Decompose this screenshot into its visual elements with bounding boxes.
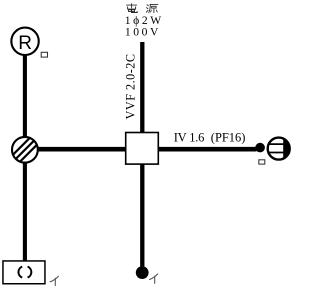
wire: lamp receptacle to joint box (left vertical upper) — [23, 54, 27, 138]
svg-text:(PF16): (PF16) — [211, 130, 246, 144]
VVF joint box (hatched circle) — [9, 127, 41, 173]
switch ロ (filled dot) — [255, 143, 265, 153]
power source label 源 (kanji GEN, hand-drawn) — [146, 4, 158, 12]
label イ (katakana, hand-drawn) — [50, 276, 58, 285]
wire: outlet box to switch i (bottom vertical) — [140, 164, 144, 268]
wire: joint box to outlet box (left horizontal) — [37, 147, 126, 152]
wall outlet symbol (circle, right part filled, two bars) — [266, 136, 293, 161]
ceiling rose 引掛シーリング (box with parentheses) — [3, 261, 45, 284]
lamp receptacle R — [11, 28, 38, 55]
label ロ (katakana, hand-drawn) — [41, 52, 47, 57]
svg-text:VVF 2.0-2C: VVF 2.0-2C — [123, 54, 137, 119]
wire: joint box to ceiling rose (left vertical lower) — [23, 162, 27, 261]
outlet box (square junction box) — [126, 133, 159, 165]
svg-text:R: R — [18, 33, 32, 54]
svg-text:IV 1.6: IV 1.6 — [174, 130, 205, 144]
svg-text:100V: 100V — [125, 25, 159, 38]
wire: power source drop (top vertical) — [140, 42, 144, 134]
power source label 電 (kanji DEN, hand-drawn) — [127, 4, 138, 13]
switch イ (filled dot) — [136, 266, 149, 279]
label イ (katakana, hand-drawn) — [150, 274, 158, 284]
label ロ (katakana, hand-drawn) — [259, 160, 265, 164]
wire: outlet box to switch ro (right horizontal) — [158, 147, 256, 152]
